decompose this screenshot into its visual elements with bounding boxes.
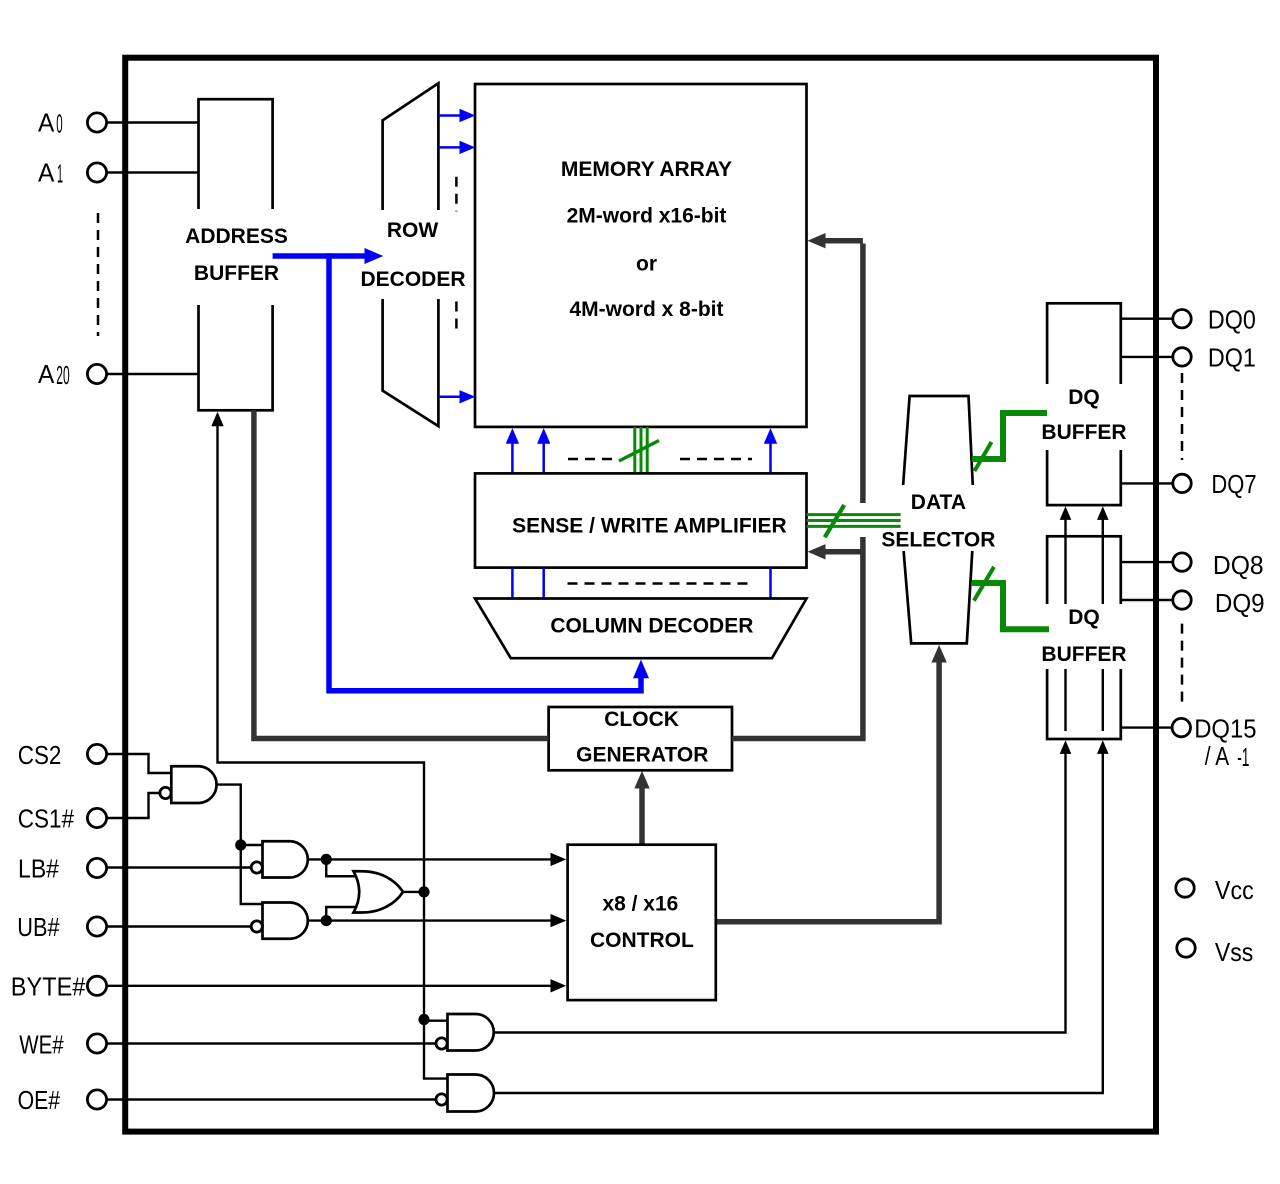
junction U3 output: [321, 915, 332, 926]
pin OE#: [87, 1090, 106, 1109]
wire A0 to address buffer: [107, 121, 200, 123]
dark line control to data selector: [716, 660, 939, 922]
green slash lower: [974, 567, 994, 601]
svg-text:UB#: UB#: [17, 912, 60, 942]
wire DQ7: [1121, 482, 1173, 484]
data selector: [901, 396, 975, 643]
memory array box: [475, 84, 807, 427]
green bus data selector to lower DQ buffer: [972, 583, 1049, 629]
blue arrow sense amp to memory array 1: [511, 442, 514, 474]
blue arrow row decoder to memory array 3: [438, 396, 461, 399]
dashed ellipsis between sense amp and column decoder: [568, 582, 753, 585]
wire U4 output down to U5/U6: [424, 892, 448, 1079]
upper DQ buffer box: [1047, 303, 1121, 505]
dashed ellipsis DQ9..DQ15: [1181, 624, 1184, 705]
wire DQ9: [1121, 599, 1173, 601]
svg-text:WE#: WE#: [19, 1029, 64, 1059]
svg-text:COLUMN DECODER: COLUMN DECODER: [550, 615, 753, 638]
gate U6 input bubble: [436, 1094, 447, 1105]
gate U3 input bubble: [251, 921, 262, 932]
wire U1 output down to U2/U3: [218, 785, 263, 904]
junction U2 output: [321, 854, 332, 865]
wire DQ1: [1121, 356, 1173, 358]
gate U2 input bubble: [251, 862, 262, 873]
blue arrowhead into column decoder: [633, 660, 649, 679]
pin LB#: [87, 858, 106, 877]
gate U2 (LB NAND): [263, 841, 308, 877]
dark arrow control to clock generator: [639, 786, 645, 845]
svg-text:SENSE / WRITE AMPLIFIER: SENSE / WRITE AMPLIFIER: [512, 515, 787, 538]
svg-text:4M-word x 8-bit: 4M-word x 8-bit: [569, 298, 723, 321]
column decoder: [475, 599, 807, 659]
pin DQ8: [1173, 553, 1191, 571]
wire U3 output to control: [309, 919, 552, 921]
blue arrow row decoder to memory array 2: [438, 146, 461, 149]
row decoder: [383, 83, 439, 426]
pin Vss: [1177, 939, 1195, 957]
pin DQ9: [1173, 591, 1191, 609]
dashed ellipsis between A1 and A20: [97, 213, 100, 336]
svg-text:Vcc: Vcc: [1215, 875, 1254, 905]
pin A0: [87, 113, 106, 132]
dark arrowhead into data selector: [931, 645, 946, 663]
gate U1 (chip select AND): [171, 766, 216, 803]
svg-text:or: or: [636, 253, 657, 276]
pin UB#: [87, 917, 106, 936]
svg-text:LB#: LB#: [18, 853, 59, 883]
wire BYTE# to control: [107, 985, 553, 987]
wire DQ0: [1121, 318, 1173, 320]
blue lines sense amp to column decoder: [511, 568, 514, 599]
junction U4 output: [418, 886, 429, 897]
wire A1 to address buffer: [107, 171, 200, 173]
dashed ellipsis on row decoder outputs (lower): [455, 302, 458, 335]
svg-text:DATA: DATA: [911, 491, 966, 514]
wire CS2 to gate U1: [107, 754, 172, 773]
svg-text:0: 0: [56, 109, 62, 139]
chip outer border: [125, 58, 1156, 1132]
wire CS1# to gate U1 bubble: [107, 793, 161, 818]
blue arrow row decoder to memory array 1: [438, 114, 461, 117]
svg-text:MEMORY ARRAY: MEMORY ARRAY: [561, 158, 732, 181]
branch U3 to OR gate U4: [326, 907, 362, 921]
dashed ellipsis between blue arrows above sense amp (right): [680, 458, 752, 461]
svg-text:SELECTOR: SELECTOR: [881, 528, 995, 551]
svg-text:DQ8: DQ8: [1213, 550, 1264, 580]
pin WE#: [87, 1034, 106, 1053]
dark arrow into sense amp right edge: [824, 549, 863, 555]
dashed ellipsis between blue arrows above sense amp (left): [568, 458, 614, 461]
pin DQ1: [1173, 348, 1191, 366]
svg-text:DQ0: DQ0: [1208, 304, 1256, 334]
svg-text:CS2: CS2: [18, 740, 62, 770]
green bus data selector to upper DQ buffer: [972, 413, 1047, 459]
gate U1 input bubble: [160, 787, 171, 798]
wire U4 output: [403, 891, 425, 893]
wire U5 output to lower DQ buffer: [494, 749, 1066, 1033]
wire OE# to gate U6 bubble: [107, 1098, 437, 1100]
junction U1 output to U2: [235, 839, 246, 850]
dashed ellipsis on row decoder outputs (upper): [455, 177, 458, 212]
dark clock line to address buffer: [254, 410, 549, 738]
wire DQ15: [1121, 726, 1172, 728]
wire DQ8: [1121, 561, 1173, 563]
pin DQ7: [1173, 474, 1191, 492]
svg-text:GENERATOR: GENERATOR: [576, 744, 708, 767]
wire A20 to address buffer: [107, 373, 200, 375]
svg-text:/ A: / A: [1205, 741, 1230, 771]
green slash on sense amp bus: [825, 505, 845, 537]
green slash upper: [975, 442, 992, 471]
gate U3 (UB NAND): [263, 903, 308, 939]
junction to U5: [418, 1014, 429, 1025]
wire WE# to gate U5 bubble: [107, 1042, 437, 1044]
wire U4 output up to address buffer: [218, 424, 425, 892]
wire U6 output to lower DQ buffer: [495, 749, 1103, 1093]
svg-text:Vss: Vss: [1215, 937, 1253, 967]
wire U2 output to control: [309, 858, 552, 860]
clock generator box: [549, 707, 732, 770]
svg-text:DQ9: DQ9: [1215, 588, 1265, 618]
lower DQ buffer box: [1047, 536, 1121, 739]
svg-text:DQ15: DQ15: [1194, 714, 1256, 744]
svg-text:DQ: DQ: [1068, 386, 1100, 409]
svg-text:OE#: OE#: [18, 1085, 61, 1115]
gate U6 (output enable NAND): [448, 1075, 495, 1112]
green bus sense amp to data selector (3 lines): [807, 513, 901, 516]
sense / write amplifier box: [475, 473, 807, 567]
dark arrowhead into memory array: [808, 233, 826, 248]
branch U2 to OR gate U4: [326, 859, 362, 876]
blue arrow sense amp to memory array 3: [769, 442, 772, 474]
pin CS1#: [87, 808, 106, 827]
pin A20: [87, 364, 106, 383]
svg-text:DQ7: DQ7: [1211, 469, 1256, 499]
svg-text:A: A: [38, 359, 55, 389]
dashed ellipsis DQ1..DQ7: [1181, 373, 1184, 460]
svg-text:x8 / x16: x8 / x16: [602, 892, 678, 915]
OR gate U4: [354, 871, 404, 912]
x8/x16 control box: [568, 845, 716, 1000]
svg-text:1: 1: [57, 159, 63, 189]
svg-text:2M-word x16-bit: 2M-word x16-bit: [567, 205, 727, 228]
svg-text:DECODER: DECODER: [360, 268, 465, 291]
svg-text:A: A: [38, 107, 55, 137]
pin DQ0: [1173, 310, 1191, 328]
blue bus vertical branch down: [329, 253, 641, 690]
blue bus address buffer to row decoder: [273, 253, 367, 259]
pin DQ15: [1172, 718, 1190, 736]
dark clock feedback line right and up to memory array: [732, 537, 863, 739]
svg-text:CLOCK: CLOCK: [604, 708, 679, 731]
svg-text:-1: -1: [1237, 742, 1249, 772]
address buffer box: [199, 99, 273, 410]
svg-text:CONTROL: CONTROL: [590, 929, 694, 952]
gate U5 (write enable NAND): [448, 1014, 494, 1051]
blue arrow sense amp to memory array 2: [542, 442, 545, 474]
svg-text:20: 20: [56, 360, 69, 390]
svg-text:CS1#: CS1#: [18, 804, 75, 834]
svg-text:DQ: DQ: [1068, 606, 1100, 629]
green bus slash: [619, 441, 659, 462]
svg-text:A: A: [38, 157, 55, 187]
pin CS2: [87, 744, 106, 763]
wire LB# to gate U2 bubble: [107, 866, 252, 868]
green bus memory array to sense amp (3 lines): [633, 427, 636, 474]
gate U5 input bubble: [436, 1038, 447, 1049]
svg-text:DQ1: DQ1: [1208, 343, 1256, 373]
pin Vcc: [1176, 879, 1194, 897]
svg-text:ROW: ROW: [387, 219, 439, 242]
svg-text:BYTE#: BYTE#: [11, 971, 86, 1001]
svg-text:BUFFER: BUFFER: [194, 262, 279, 285]
svg-text:BUFFER: BUFFER: [1041, 643, 1126, 666]
pin BYTE#: [87, 976, 106, 995]
arrows lower DQ buffer to upper DQ buffer: [1064, 517, 1066, 731]
svg-text:ADDRESS: ADDRESS: [185, 225, 288, 248]
wire UB# to gate U3 bubble: [107, 925, 252, 927]
pin A1: [87, 163, 106, 182]
svg-text:BUFFER: BUFFER: [1041, 421, 1126, 444]
